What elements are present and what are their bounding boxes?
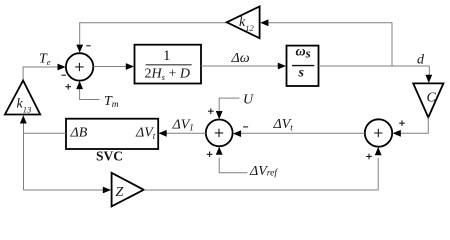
arrowhead up into k13 base: [20, 115, 27, 123]
svg-text:ΔVt: ΔVt: [273, 117, 294, 133]
wire S2 output left into SVC block, node delta V1: [166, 132, 206, 134]
svg-text:s: s: [298, 66, 305, 81]
wire Tm input with elbow: [80, 88, 100, 100]
arrowhead into inertia block: [126, 63, 134, 70]
svg-text:ΔVt: ΔVt: [135, 126, 156, 142]
arrowhead into right of S3: [393, 130, 401, 137]
svg-text:SVC: SVC: [96, 149, 123, 164]
block 1/(2Hs+D): [135, 45, 202, 84]
arrowhead U into top of S2: [216, 111, 223, 119]
block omega_s/s integrator: [287, 45, 319, 87]
svg-text:Z: Z: [116, 185, 124, 200]
sign minus (Vt input of S2): [243, 126, 248, 128]
wire bottom line from left vertical to Z: [24, 189, 104, 191]
arrowhead into top of left summing junction: [76, 45, 83, 53]
wire SVC output left to junction: [24, 132, 67, 134]
svg-text:1: 1: [163, 48, 171, 64]
sign minus (k12 input, top): [86, 45, 91, 47]
wire S1 to inertia block: [93, 66, 126, 68]
sign plus (U input of S2): [208, 108, 214, 114]
summing junction S1: [66, 53, 93, 80]
amplifier k12: [227, 6, 260, 38]
amplifier Z: [112, 173, 144, 207]
wire Z output right along bottom: [144, 189, 379, 191]
wire inertia block to integrator block, node delta-omega: [201, 65, 279, 67]
sign plus (Tm input, bottom-left): [65, 84, 71, 90]
svg-text:ωs: ωs: [296, 45, 311, 61]
svg-text:Δω: Δω: [231, 51, 250, 66]
summing junction S3: [365, 119, 392, 146]
svg-text:C: C: [427, 91, 437, 106]
arrowhead Tm into bottom of S1: [76, 81, 83, 89]
wire k12 feedback tap from d-line up and left into k12: [266, 23, 392, 66]
arrowhead into Z: [103, 187, 111, 194]
wire C output down and left into right summing junction: [400, 117, 428, 133]
wire bottom feedback from Z up into S3: [377, 158, 379, 190]
sign plus (Vref input of S2): [207, 152, 213, 158]
wire S3 output left to S2, node delta Vt: [240, 132, 364, 134]
svg-text:ΔB: ΔB: [70, 126, 88, 141]
arrowhead into left of summing junction: [58, 64, 66, 71]
block SVC: [66, 119, 158, 149]
sign plus (bottom input of S3): [366, 154, 372, 160]
amplifier k13: [5, 81, 40, 115]
wire integrator output to the right, node d: [319, 65, 430, 67]
arrowhead into right edge of SVC: [159, 130, 167, 137]
svg-text:2Hs + D: 2Hs + D: [145, 67, 190, 83]
arrowhead into top of C: [425, 75, 432, 83]
summing junction S2: [206, 119, 233, 146]
wire delta Vref elbow into bottom of S2: [219, 158, 247, 173]
arrowhead into k12 right edge: [260, 19, 268, 26]
amplifier C: [413, 83, 443, 117]
arrowhead into integrator: [278, 63, 286, 70]
wire down into amplifier C: [428, 66, 430, 76]
svg-text:U: U: [243, 93, 254, 108]
wire k12 output to top of left summing junction: [80, 23, 227, 46]
arrowhead into right of S2: [233, 130, 241, 137]
wire left vertical junction line: [23, 123, 25, 190]
arrowhead Vref into bottom of S2: [216, 147, 223, 155]
svg-text:d: d: [417, 53, 425, 68]
arrowhead into bottom of S3: [375, 147, 382, 155]
wire U input elbow into top of S2: [219, 98, 239, 111]
wire Te from k13 apex to left summing junction: [23, 67, 58, 80]
sign plus (C input into S3): [399, 120, 405, 126]
sign minus (Te input, left): [62, 74, 67, 76]
